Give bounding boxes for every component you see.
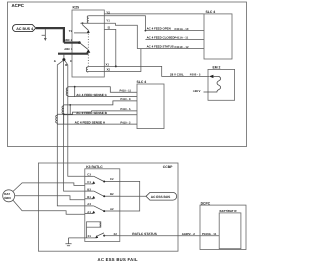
EM2 coil squiggle [204, 76, 221, 92]
ground arrow off feeder [42, 29, 47, 41]
wire coil to X1 line [86, 227, 88, 238]
svg-text:I2: I2 [108, 26, 111, 30]
svg-text:C3: C3 [87, 173, 91, 177]
svg-text:GEN: GEN [4, 196, 11, 200]
contactor K25 box [72, 10, 104, 77]
K3 contact C (C3/C1 -> C2) [85, 176, 120, 184]
svg-text:B2: B2 [110, 192, 114, 196]
svg-text:K25: K25 [73, 6, 80, 10]
box DCPC [200, 205, 246, 249]
svg-text:A1: A1 [87, 210, 91, 214]
K25 main contact terminal ABC 2 (thick stub) [64, 41, 79, 43]
svg-text:P206 - 5: P206 - 5 [190, 73, 201, 77]
current transformer A (sense A) [56, 111, 137, 124]
svg-text:P410 - 2: P410 - 2 [120, 121, 131, 124]
svg-text:A3: A3 [87, 202, 91, 206]
svg-text:CCBP: CCBP [163, 165, 173, 169]
svg-text:BATT/RAT IF: BATT/RAT IF [220, 209, 238, 213]
K25 main contact terminal ABC 1 (thick) with fixed-contact triangle [58, 53, 88, 55]
contactor K3 RATLC box [85, 169, 120, 242]
svg-text:AC ESS BUS: AC ESS BUS [151, 195, 170, 199]
svg-text:Y2: Y2 [106, 11, 110, 15]
K3 contact A (A3/A1 -> A2) [85, 206, 120, 214]
svg-text:SLC 4: SLC 4 [137, 80, 147, 84]
svg-text:B: B [65, 63, 67, 67]
svg-text:28 V COIL: 28 V COIL [170, 73, 184, 77]
bus flag AC ESS BUS [146, 193, 177, 201]
svg-text:EM 2: EM 2 [213, 66, 221, 70]
svg-text:A2: A2 [110, 207, 114, 211]
svg-text:P419A - 11: P419A - 11 [202, 232, 217, 236]
svg-text:DCPC: DCPC [201, 201, 211, 205]
svg-text:C2: C2 [110, 177, 114, 181]
svg-text:AC 4 FEED OPEN: AC 4 FEED OPEN [147, 27, 171, 31]
wire phase A [57, 61, 85, 206]
K25 main contact arm [79, 43, 88, 50]
relay EM 2 box [208, 69, 235, 100]
wire phase C [65, 61, 85, 177]
svg-text:X1: X1 [88, 234, 92, 238]
current transformer C (sense C) [66, 87, 137, 97]
wire Y1 lead routed to FEED STATUS [80, 23, 137, 48]
box CCBP [38, 163, 178, 251]
wire Y2 lead to SLC4 [104, 13, 204, 15]
wire phase B [64, 61, 85, 192]
svg-text:AC 4 FEED SENSE C: AC 4 FEED SENSE C [76, 93, 107, 97]
wire RATLC STATUS [120, 235, 219, 237]
EM2 entry arrowhead [209, 75, 213, 78]
wire RAT GEN phase C [13, 183, 85, 192]
wire AC 4 FEED STATUS [137, 48, 204, 50]
svg-text:P411A - 11: P411A - 11 [175, 36, 189, 40]
svg-text:ACPC: ACPC [12, 3, 25, 8]
svg-text:ABC 2: ABC 2 [64, 39, 73, 42]
svg-text:AC 4 FEED STATUS: AC 4 FEED STATUS [147, 45, 174, 49]
svg-text:C1: C1 [87, 180, 91, 184]
svg-text:B3: B3 [87, 187, 91, 191]
svg-text:X1: X1 [106, 62, 110, 66]
box SLC 4 (upper) [204, 14, 232, 59]
box ACPC [8, 2, 247, 147]
box SLC 4 (lower) [137, 84, 164, 129]
generator RAT GEN [3, 190, 15, 202]
wire X1 lead to EM2 coil [88, 66, 210, 76]
svg-text:C: C [70, 59, 73, 63]
svg-text:X2: X2 [114, 232, 118, 236]
svg-text:AC ESS BUS FAIL: AC ESS BUS FAIL [98, 257, 138, 262]
box BATT/RAT IF [219, 213, 241, 249]
K25 mechanical linkage (dashed) [87, 34, 89, 66]
svg-text:AC BUS 4: AC BUS 4 [16, 27, 33, 31]
K3 contact B (B3/B1 -> B2) [85, 191, 120, 199]
svg-text:SLC 4: SLC 4 [206, 10, 216, 14]
wire AC 4 FEED CLOSED [145, 38, 204, 40]
svg-text:P411A - 10: P411A - 10 [175, 27, 189, 31]
wire aux coil lead down to FEED OPEN [89, 16, 146, 31]
ground at K3 [65, 238, 71, 246]
svg-text:X2: X2 [107, 68, 111, 72]
bus flag AC BUS 4 [13, 25, 36, 32]
svg-text:RATLC STATUS: RATLC STATUS [132, 232, 157, 236]
svg-text:P411C - 12: P411C - 12 [175, 45, 189, 49]
wire I2 lead down to X1 node [104, 29, 116, 66]
svg-text:K3 RATLC: K3 RATLC [86, 165, 103, 169]
K25 operate coil (squiggle) [86, 66, 87, 72]
wire RAT GEN phase A [13, 200, 85, 214]
wire X2 lead riser to FEED STATUS [88, 49, 141, 72]
K3 operate coil box [87, 222, 101, 227]
K25 aux coil (squiggle) [87, 16, 89, 23]
svg-text:+28 V: +28 V [193, 89, 201, 93]
svg-text:T1: T1 [69, 30, 73, 33]
svg-text:Y1: Y1 [106, 18, 110, 22]
wire AC 4 FEED OPEN [145, 30, 204, 32]
svg-text:P410 - 11: P410 - 11 [120, 90, 132, 93]
svg-text:A43P2 - 2: A43P2 - 2 [182, 232, 195, 236]
svg-text:AC 4 FEED SENSE B: AC 4 FEED SENSE B [76, 111, 107, 115]
wire RAT GEN phase B [15, 196, 85, 200]
K3 aux contact X1/X2 [69, 237, 97, 239]
current transformer B (sense B) [62, 101, 137, 115]
junction X1/I2 [115, 65, 117, 67]
svg-text:ABC 1: ABC 1 [64, 48, 73, 51]
svg-text:AC 4 FEED CLOSED: AC 4 FEED CLOSED [147, 35, 175, 39]
phase fan-out junction [63, 54, 65, 59]
svg-text:AC 4 FEED SENSE A: AC 4 FEED SENSE A [75, 120, 106, 124]
wires C2/B2/A2 to AC ESS BUS [120, 181, 146, 211]
svg-text:B1: B1 [87, 195, 91, 199]
svg-text:A: A [54, 59, 57, 63]
wire thick feeder from AC BUS 4 to contactor [36, 28, 64, 42]
